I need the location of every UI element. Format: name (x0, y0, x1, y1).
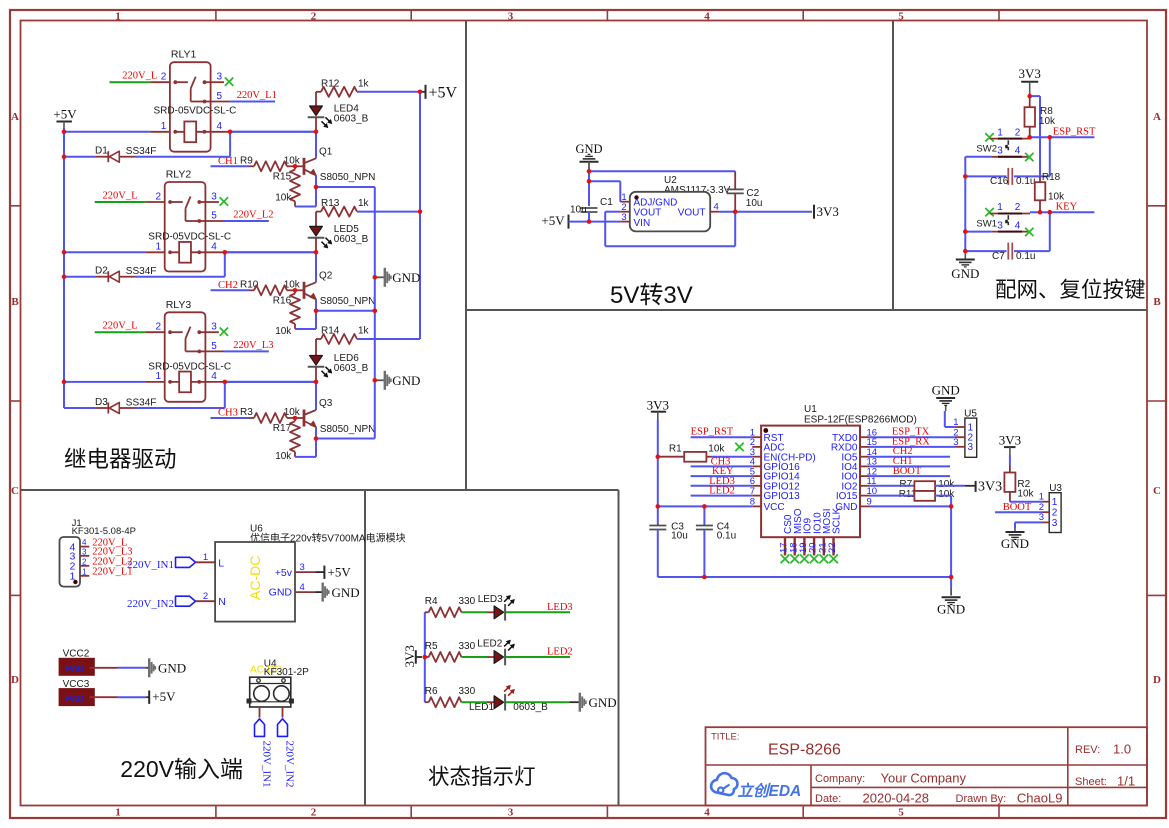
wire 3V3 rail down (657, 420, 659, 524)
svg-text:+5V: +5V (328, 565, 352, 580)
svg-text:Company:: Company: (815, 773, 865, 785)
svg-text:RLY2: RLY2 (166, 169, 192, 181)
svg-text:B: B (11, 296, 19, 308)
svg-text:LED1: LED1 (469, 702, 494, 713)
svg-text:4: 4 (211, 242, 217, 253)
wire GND to C2 top (589, 170, 735, 172)
svg-text:AC-DC: AC-DC (247, 556, 263, 600)
svg-text:配网、复位按键: 配网、复位按键 (995, 278, 1146, 302)
svg-text:C: C (11, 485, 19, 497)
svg-text:R17: R17 (273, 423, 292, 434)
svg-text:1: 1 (161, 121, 167, 132)
svg-text:4: 4 (300, 582, 305, 593)
svg-text:SS34F: SS34F (126, 146, 157, 157)
power flag 3V3 (R7) (965, 485, 976, 487)
pin 1 U2 (620, 201, 630, 203)
svg-text:A: A (1153, 111, 1161, 123)
svg-text:Sheet:: Sheet: (1075, 776, 1107, 788)
svg-text:PAD: PAD (66, 694, 85, 704)
svg-text:5: 5 (898, 10, 904, 22)
svg-text:Date:: Date: (815, 793, 841, 805)
wire 220V_IN1 to U6 L (196, 561, 216, 563)
wire pulldown to emitter (295, 456, 316, 458)
svg-text:+5V: +5V (53, 107, 77, 122)
wire VOUT loop (pin2 to pin4) (605, 211, 620, 213)
pin 13 U1 IO4 (860, 465, 869, 467)
wire emitter to ground rail (316, 186, 375, 188)
section divider horizontal y=490 (21, 489, 619, 491)
svg-text:R4: R4 (425, 596, 438, 607)
wire +5V to VIN (569, 221, 621, 223)
wire emitter to ground rail (316, 438, 375, 440)
wire U3 pin3 to GND (1015, 521, 1043, 523)
net LED2 to pin7 (691, 495, 753, 497)
svg-text:1: 1 (156, 242, 162, 253)
svg-text:5: 5 (217, 91, 223, 102)
svg-text:1.0: 1.0 (1113, 742, 1131, 757)
svg-text:0.1u: 0.1u (1016, 251, 1035, 262)
pin 1 U3 (1043, 501, 1050, 503)
svg-text:SW2: SW2 (976, 144, 997, 155)
svg-text:R3: R3 (240, 407, 253, 418)
capacitor C7 0.1u (965, 250, 1006, 252)
net 220V_L1 from RLY1 pin5 (230, 101, 275, 103)
pin 3 U3 (1043, 521, 1050, 523)
svg-text:220V输入端: 220V输入端 (120, 756, 243, 782)
svg-text:GPIO13: GPIO13 (764, 491, 801, 502)
wire RLY1 pin4 to junction (230, 131, 316, 133)
svg-text:C: C (1153, 485, 1161, 497)
svg-text:220V_L3: 220V_L3 (233, 340, 273, 351)
row ticks left and right (10, 205, 21, 207)
section divider horizontal y=310 (466, 309, 1147, 311)
svg-text:LED2: LED2 (709, 486, 735, 497)
pin 16 U1 TXD0 (860, 436, 869, 438)
wire R6 to LED (green) (461, 701, 487, 703)
svg-text:GND: GND (392, 270, 420, 285)
relay RLY3 (165, 312, 206, 402)
svg-text:220V_L: 220V_L (122, 71, 157, 82)
net BOOT to U3 pin2 (995, 511, 1042, 513)
net CH2 pin14 (869, 456, 950, 458)
junction base node (295, 417, 304, 419)
svg-text:0603_B: 0603_B (513, 702, 548, 713)
svg-text:10k: 10k (1017, 489, 1034, 500)
svg-text:GND: GND (332, 585, 360, 600)
svg-text:R5: R5 (425, 641, 438, 652)
svg-text:GND: GND (589, 695, 617, 710)
svg-text:C1: C1 (600, 197, 613, 208)
svg-text:3: 3 (217, 72, 223, 83)
svg-text:SRD-05VDC-SL-C: SRD-05VDC-SL-C (148, 232, 231, 243)
svg-text:N: N (218, 596, 226, 608)
svg-text:1/1: 1/1 (1117, 774, 1135, 789)
svg-text:3V3: 3V3 (999, 433, 1021, 448)
svg-text:LED2: LED2 (477, 638, 502, 649)
svg-text:SW1: SW1 (976, 219, 997, 230)
svg-text:1: 1 (82, 567, 87, 576)
pin 2 U3 (1043, 511, 1050, 513)
svg-text:立创EDA: 立创EDA (738, 782, 802, 800)
net ESP_RX pin15 to U5 (869, 446, 956, 448)
wire R5 to LED (green) (461, 656, 487, 658)
ground GND (VCC2) (148, 658, 150, 677)
pin 18 U1 MISO (794, 537, 796, 555)
svg-text:3: 3 (300, 562, 305, 573)
svg-text:+5V: +5V (152, 689, 176, 704)
capacitor C4 0.1u (703, 506, 705, 525)
svg-text:KEY: KEY (1056, 201, 1078, 212)
svg-text:R9: R9 (240, 155, 253, 166)
svg-text:1: 1 (1052, 497, 1058, 508)
net KEY (1030, 211, 1094, 213)
pin 15 U1 RXD0 (860, 446, 869, 448)
relay RLY1 (170, 62, 211, 152)
svg-text:1k: 1k (358, 78, 370, 89)
svg-text:330: 330 (459, 596, 476, 607)
svg-text:4: 4 (714, 202, 719, 213)
wire coil row1 from rail (64, 131, 150, 133)
svg-text:10k: 10k (275, 326, 292, 337)
svg-text:0603_B: 0603_B (334, 234, 369, 245)
pin 2 U4 wire down (282, 707, 284, 718)
pin 1 U5 (956, 426, 965, 428)
svg-text:SRD-05VDC-SL-C: SRD-05VDC-SL-C (154, 106, 237, 117)
pin 2 U2 (620, 211, 630, 213)
wire +5V right rail (419, 92, 421, 339)
junction base node (295, 289, 304, 291)
wire RLY3 pin4 to junction (225, 381, 316, 383)
svg-text:5: 5 (898, 806, 904, 818)
ground GND (U3) (1014, 529, 1016, 532)
svg-text:330: 330 (459, 686, 476, 697)
wire VOUT to 3V3 flag (735, 211, 812, 213)
svg-text:1k: 1k (358, 326, 370, 337)
svg-text:1: 1 (1039, 492, 1044, 503)
svg-text:0.1u: 0.1u (717, 531, 736, 542)
pin 3 U6 +5v (295, 571, 316, 573)
wire R14 to +5V rail (357, 338, 420, 340)
pin 21 U1 MOSI (823, 537, 825, 555)
svg-text:3: 3 (997, 146, 1003, 157)
svg-text:4: 4 (217, 121, 223, 132)
svg-text:3V3: 3V3 (647, 398, 669, 413)
diode D3 SS34F (flyback) (64, 407, 96, 409)
svg-text:10u: 10u (671, 531, 688, 542)
wire R2 to U3 pin1 (1010, 501, 1043, 503)
wire coil row to LED column (225, 381, 316, 383)
svg-text:L: L (218, 558, 224, 570)
svg-text:D1: D1 (95, 146, 108, 157)
svg-text:10u: 10u (746, 198, 763, 209)
svg-text:2: 2 (1015, 127, 1021, 138)
svg-text:SRD-05VDC-SL-C: SRD-05VDC-SL-C (148, 362, 231, 373)
svg-text:CH2: CH2 (218, 280, 238, 291)
svg-text:1k: 1k (358, 198, 370, 209)
svg-text:4: 4 (211, 371, 217, 382)
wire 3V3 to R18 column (1030, 95, 1040, 97)
svg-text:3V3: 3V3 (978, 480, 1002, 495)
wire 220V_IN2 to U6 N (196, 600, 216, 602)
svg-text:ESP_RST: ESP_RST (691, 427, 734, 438)
net 220V_L3 from RLY3 pin5 (224, 350, 269, 352)
port flag 220V_IN2 (U4) (278, 719, 288, 737)
svg-text:220V_IN2: 220V_IN2 (283, 741, 295, 788)
svg-text:BOOT: BOOT (1003, 502, 1032, 513)
net CH1 pin13 (869, 465, 950, 467)
svg-text:4: 4 (704, 806, 710, 818)
net BOOT pin12 (869, 475, 950, 477)
ground GND (lower, relay section) (375, 379, 385, 381)
svg-text:1: 1 (203, 552, 208, 563)
svg-text:C7: C7 (992, 251, 1005, 262)
svg-text:2: 2 (203, 591, 208, 602)
svg-text:CH3: CH3 (218, 408, 238, 419)
wire LED rail vertical (424, 612, 426, 702)
power flag 3V3 (buttons) (1021, 81, 1038, 83)
svg-text:5: 5 (211, 341, 217, 352)
svg-text:0603_B: 0603_B (334, 363, 369, 374)
svg-text:10k: 10k (275, 451, 292, 462)
svg-text:2: 2 (82, 557, 87, 566)
wire bottom rail (658, 576, 951, 578)
pin 4 U1 GPIO16 (752, 465, 761, 467)
net LED3 (green wire) (506, 611, 570, 613)
svg-text:10k: 10k (708, 444, 725, 455)
svg-text:LED3: LED3 (547, 602, 573, 613)
power flag +5V (VCC3) (148, 691, 150, 704)
svg-text:ESP_RST: ESP_RST (1053, 126, 1096, 137)
svg-text:3V3: 3V3 (1019, 66, 1041, 81)
svg-text:D: D (1153, 674, 1161, 686)
svg-text:3: 3 (211, 322, 217, 333)
wire SW2 pin3 to gnd rail (965, 156, 991, 158)
svg-text:3: 3 (508, 10, 514, 22)
svg-text:220V_L: 220V_L (103, 191, 138, 202)
net CH3 to pin4 (691, 465, 753, 467)
wire emitter ground rail (374, 187, 376, 439)
svg-text:1: 1 (997, 127, 1003, 138)
LED LED4 0603_B (315, 92, 317, 106)
svg-text:SCLK: SCLK (832, 508, 843, 534)
net ESP_RST to pin1 (691, 436, 753, 438)
pin 2 U1 ADC (752, 446, 761, 448)
svg-text:3: 3 (621, 212, 626, 223)
svg-text:PAD: PAD (66, 663, 85, 673)
svg-text:RLY3: RLY3 (166, 299, 192, 311)
svg-text:Q2: Q2 (319, 270, 333, 281)
junction VOUT node (719, 211, 735, 213)
svg-text:220V_L2: 220V_L2 (233, 210, 273, 221)
svg-text:KF301-5.08-4P: KF301-5.08-4P (72, 526, 136, 537)
svg-text:3: 3 (211, 192, 217, 203)
power flag 3V3 (regulator output) (813, 205, 815, 219)
pin 20 U1 IO10 (813, 537, 815, 555)
no-connect X pin2 ADC (735, 443, 743, 451)
svg-text:B: B (1153, 296, 1161, 308)
svg-text:GND: GND (951, 266, 979, 281)
svg-text:D: D (11, 674, 19, 686)
pin 11 U1 IO2 (860, 485, 869, 487)
LED LED1 (494, 696, 504, 709)
ground GND (ESP bottom) (950, 577, 952, 587)
wire VCC2 to GND (90, 667, 118, 669)
svg-text:220V_IN1: 220V_IN1 (127, 559, 174, 571)
pin 3 U2 (620, 221, 630, 223)
svg-text:5V转3V: 5V转3V (610, 282, 693, 309)
svg-text:继电器驱动: 继电器驱动 (64, 447, 177, 472)
wire SW1 pin3 to gnd rail (965, 231, 991, 233)
svg-text:D3: D3 (95, 397, 108, 408)
svg-text:GND: GND (1001, 536, 1029, 551)
svg-text:4: 4 (1015, 221, 1021, 232)
LED LED5 0603_B (315, 212, 317, 227)
svg-text:ChaoL9: ChaoL9 (1017, 791, 1063, 806)
net ESP_RST (1030, 136, 1095, 138)
junction dots layer (62, 130, 67, 135)
wire R4 to LED (green) (461, 611, 487, 613)
capacitor C2 10u (727, 188, 744, 190)
wire CH3 net to base resistor (211, 417, 250, 419)
svg-text:GND: GND (158, 661, 186, 676)
relay RLY2 (165, 182, 206, 272)
wire R12 to +5V rail (357, 91, 420, 93)
logo LCEDA cloud (711, 773, 737, 795)
column ticks top (215, 10, 217, 21)
wire ESP_RST down to C16 (1049, 137, 1051, 176)
svg-text:R6: R6 (425, 686, 438, 697)
svg-text:R1: R1 (669, 444, 682, 455)
wire CH2 net to base resistor (211, 289, 250, 291)
svg-text:Your Company: Your Company (881, 771, 967, 786)
svg-text:R16: R16 (273, 295, 292, 306)
LED LED2 (494, 651, 504, 664)
resistor R18 10k (1039, 177, 1041, 183)
svg-text:1: 1 (115, 806, 121, 818)
svg-text:Q3: Q3 (319, 398, 333, 409)
svg-text:3: 3 (1039, 512, 1044, 523)
svg-text:GND: GND (932, 383, 960, 398)
svg-text:3: 3 (1052, 518, 1058, 529)
pin 3 U5 (956, 446, 965, 448)
wire coil row to LED column (230, 131, 316, 133)
wire +5V left rail (63, 128, 65, 408)
svg-text:220V_L: 220V_L (103, 321, 138, 332)
wire RLY2 pin4 to junction (225, 251, 316, 253)
svg-text:22: 22 (827, 542, 838, 553)
svg-text:1: 1 (997, 202, 1003, 213)
svg-text:0603_B: 0603_B (334, 114, 369, 125)
svg-text:3: 3 (82, 547, 87, 556)
svg-text:330: 330 (459, 641, 476, 652)
net LED3 to pin6 (691, 485, 753, 487)
power flag +5V (right) (420, 91, 426, 93)
capacitor C1 10u (588, 181, 590, 206)
resistor R2 10k (1009, 455, 1011, 465)
wire CH1 net to base resistor (211, 165, 250, 167)
pin 1 U4 wire down (259, 707, 261, 718)
svg-text:S8050_NPN: S8050_NPN (320, 424, 376, 435)
wire R13 to +5V rail (357, 211, 420, 213)
wire GND to ADJ pin1 (588, 171, 590, 181)
svg-text:4: 4 (82, 538, 87, 547)
wire pulldown to emitter (295, 328, 316, 330)
svg-text:+5v: +5v (275, 567, 293, 579)
LED LED3 (494, 606, 504, 619)
svg-text:VOUT: VOUT (678, 208, 706, 219)
net 220V_L2 from RLY2 pin5 (224, 220, 269, 222)
svg-text:3: 3 (508, 806, 514, 818)
svg-text:4: 4 (704, 10, 710, 22)
svg-text:GND: GND (937, 602, 965, 617)
svg-text:R15: R15 (273, 171, 292, 182)
svg-text:LED3: LED3 (478, 594, 503, 605)
svg-text:Drawn By:: Drawn By: (956, 793, 1007, 805)
wire 220V_L to RLY3 pin2 (green) (95, 331, 146, 333)
svg-text:2: 2 (1015, 202, 1021, 213)
svg-text:3: 3 (997, 221, 1003, 232)
title block outline (706, 727, 1148, 805)
svg-text:10k: 10k (275, 192, 292, 203)
pin 17 U1 CS0 (784, 537, 786, 555)
pin 9 U1 GND (860, 505, 869, 507)
pin 8 U1 VCC (752, 505, 761, 507)
svg-text:3: 3 (968, 442, 974, 453)
pin 22 U1 SCLK (832, 537, 834, 555)
svg-text:CH1: CH1 (218, 156, 238, 167)
svg-text:2: 2 (161, 72, 167, 83)
pin 6 U1 GPIO12 (752, 485, 761, 487)
svg-text:ESP-12F(ESP8266MOD): ESP-12F(ESP8266MOD) (804, 414, 917, 425)
svg-text:2: 2 (156, 192, 162, 203)
wire C7 to KEY (1014, 250, 1050, 252)
svg-text:GND: GND (392, 373, 420, 388)
svg-text:1: 1 (156, 371, 162, 382)
svg-text:A: A (11, 111, 19, 123)
ground GND (buttons) (964, 253, 966, 259)
wire 220V_L to RLY2 pin2 (green) (95, 201, 146, 203)
pin 2 U5 (956, 436, 965, 438)
pin 4 U2 (710, 211, 719, 213)
svg-text:+5V: +5V (429, 84, 458, 101)
svg-text:1: 1 (115, 10, 121, 22)
svg-text:C16: C16 (990, 176, 1009, 187)
svg-text:+5V: +5V (541, 213, 565, 228)
junction base node (295, 165, 304, 167)
svg-text:ESP-8266: ESP-8266 (768, 742, 841, 759)
wire gnd column down (950, 506, 952, 577)
svg-text:S8050_NPN: S8050_NPN (320, 296, 376, 307)
svg-text:GND: GND (269, 587, 293, 599)
svg-text:LED2: LED2 (547, 647, 573, 658)
svg-text:S8050_NPN: S8050_NPN (320, 172, 376, 183)
section divider vertical x=365 (364, 490, 366, 806)
svg-text:R18: R18 (1042, 172, 1061, 183)
wire LED1 to GND (green) (506, 701, 569, 703)
pin 10 U1 IO15 (860, 495, 869, 497)
wire VCC pin8 (658, 505, 752, 507)
svg-text:KF301-2P: KF301-2P (264, 667, 309, 678)
wire junction down to D1 (229, 132, 231, 157)
svg-text:VIN: VIN (634, 218, 651, 229)
svg-text:220V_L1: 220V_L1 (237, 90, 277, 101)
section divider vertical x=466 (465, 21, 467, 491)
port flag 220V_IN1 (U4) (255, 719, 265, 737)
svg-text:IO15: IO15 (836, 491, 858, 502)
pin 7 U1 GPIO13 (752, 495, 761, 497)
wire coil row2 from rail (64, 251, 145, 253)
wire emitter to ground rail (316, 310, 375, 312)
